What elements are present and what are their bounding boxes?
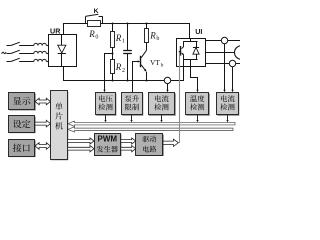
AC source label ~: [2, 52, 6, 54]
inverter freewheel diode: [184, 41, 199, 60]
motor M: [235, 46, 249, 60]
current transformer CT1: [221, 37, 227, 43]
wire sensor to current detection: [166, 84, 168, 93]
resistor R2: [111, 53, 115, 80]
svg-text:K: K: [94, 8, 99, 15]
svg-text:R: R: [115, 33, 122, 43]
block drive circuit: [136, 134, 164, 157]
arrow driver to inverter gate: [163, 139, 178, 146]
wire CT2 to current detection: [231, 67, 233, 92]
svg-text:R: R: [88, 29, 95, 39]
inverter UI box: [177, 39, 206, 67]
svg-text:R: R: [149, 30, 156, 40]
filter capacitor C: [123, 24, 132, 81]
block current detection 2: [217, 93, 240, 116]
arrow PWM-driver upper: [121, 138, 136, 144]
arrow MCU-PWM lower: [68, 146, 95, 152]
phase 2 input wire with switch and inductor: [7, 50, 49, 53]
arrow setting-MCU: [35, 120, 51, 127]
svg-text:VT: VT: [150, 58, 160, 67]
block voltage detection: [96, 93, 117, 116]
arrow pump-up limit to bus: [130, 115, 132, 122]
output wire U: [206, 40, 241, 42]
phase 1 input wire with switch and inductor: [7, 42, 49, 45]
wire IGBT emitter to DC- bus: [183, 60, 185, 66]
label R2: [115, 62, 125, 74]
phase 3 input wire with switch and inductor: [7, 58, 49, 61]
junction dots: [111, 22, 147, 81]
label R0: [88, 29, 98, 41]
block interface: [9, 140, 36, 158]
gate drive wire to IGBT: [179, 51, 181, 143]
svg-text:b: b: [161, 62, 164, 68]
arrow temperature detection to bus: [196, 115, 198, 122]
label UR: [50, 26, 61, 35]
signal bus arrow A to MCU: [68, 121, 235, 126]
svg-text:UI: UI: [195, 27, 202, 36]
current transformer CT2: [229, 60, 235, 66]
wire DC- bus: [64, 67, 184, 81]
wire inverter to temperature detection: [191, 60, 199, 93]
output wire V: [206, 52, 235, 54]
block pump-up limit: [122, 93, 144, 116]
inverter IGBT: [181, 38, 198, 60]
block display: [9, 93, 36, 111]
transistor VTb: [141, 43, 147, 81]
label VTb: [150, 58, 164, 69]
switch K: [86, 14, 103, 23]
arrow MCU-PWM upper: [68, 138, 95, 144]
signal bus arrow B to MCU: [68, 127, 233, 132]
svg-text:2: 2: [122, 68, 125, 74]
wire UR top to DC+ bus: [64, 24, 190, 39]
block temperature detection: [186, 93, 210, 116]
arrow voltage detection to bus: [104, 115, 106, 122]
arrow into voltage detection box: [103, 90, 105, 93]
arrow current detection 2 to bus: [226, 115, 228, 122]
svg-text:R: R: [115, 62, 122, 72]
svg-text:0: 0: [95, 35, 98, 41]
block current detection 1: [149, 93, 176, 116]
wire divider midpoint tap to voltage detection: [105, 54, 113, 91]
label UI: [195, 27, 202, 36]
arrow current detection 1 to bus: [160, 115, 162, 122]
svg-text:UR: UR: [50, 26, 61, 35]
block PWM generator: [95, 134, 122, 157]
block MCU: [51, 91, 69, 161]
label K: [94, 8, 99, 15]
resistor R0: [88, 21, 101, 27]
wire pump-limit to VTb base: [133, 60, 141, 92]
current sensor on DC- bus: [164, 77, 170, 83]
arrow PWM-driver lower: [121, 146, 136, 152]
arrow display-MCU: [35, 98, 51, 105]
label Rb: [149, 30, 159, 42]
svg-text:1: 1: [122, 39, 125, 45]
wire CT1 to current detection: [223, 44, 225, 92]
svg-text:b: b: [156, 36, 159, 42]
svg-text:PWM: PWM: [98, 135, 118, 144]
resistor R1: [111, 24, 115, 54]
label R1: [115, 33, 125, 45]
braking resistor Rb: [145, 24, 149, 43]
rectifier diode: [58, 35, 66, 66]
arrow interface-MCU: [35, 143, 51, 150]
rectifier UR box: [49, 35, 77, 67]
block setting: [9, 116, 36, 134]
output wire W: [206, 63, 241, 65]
